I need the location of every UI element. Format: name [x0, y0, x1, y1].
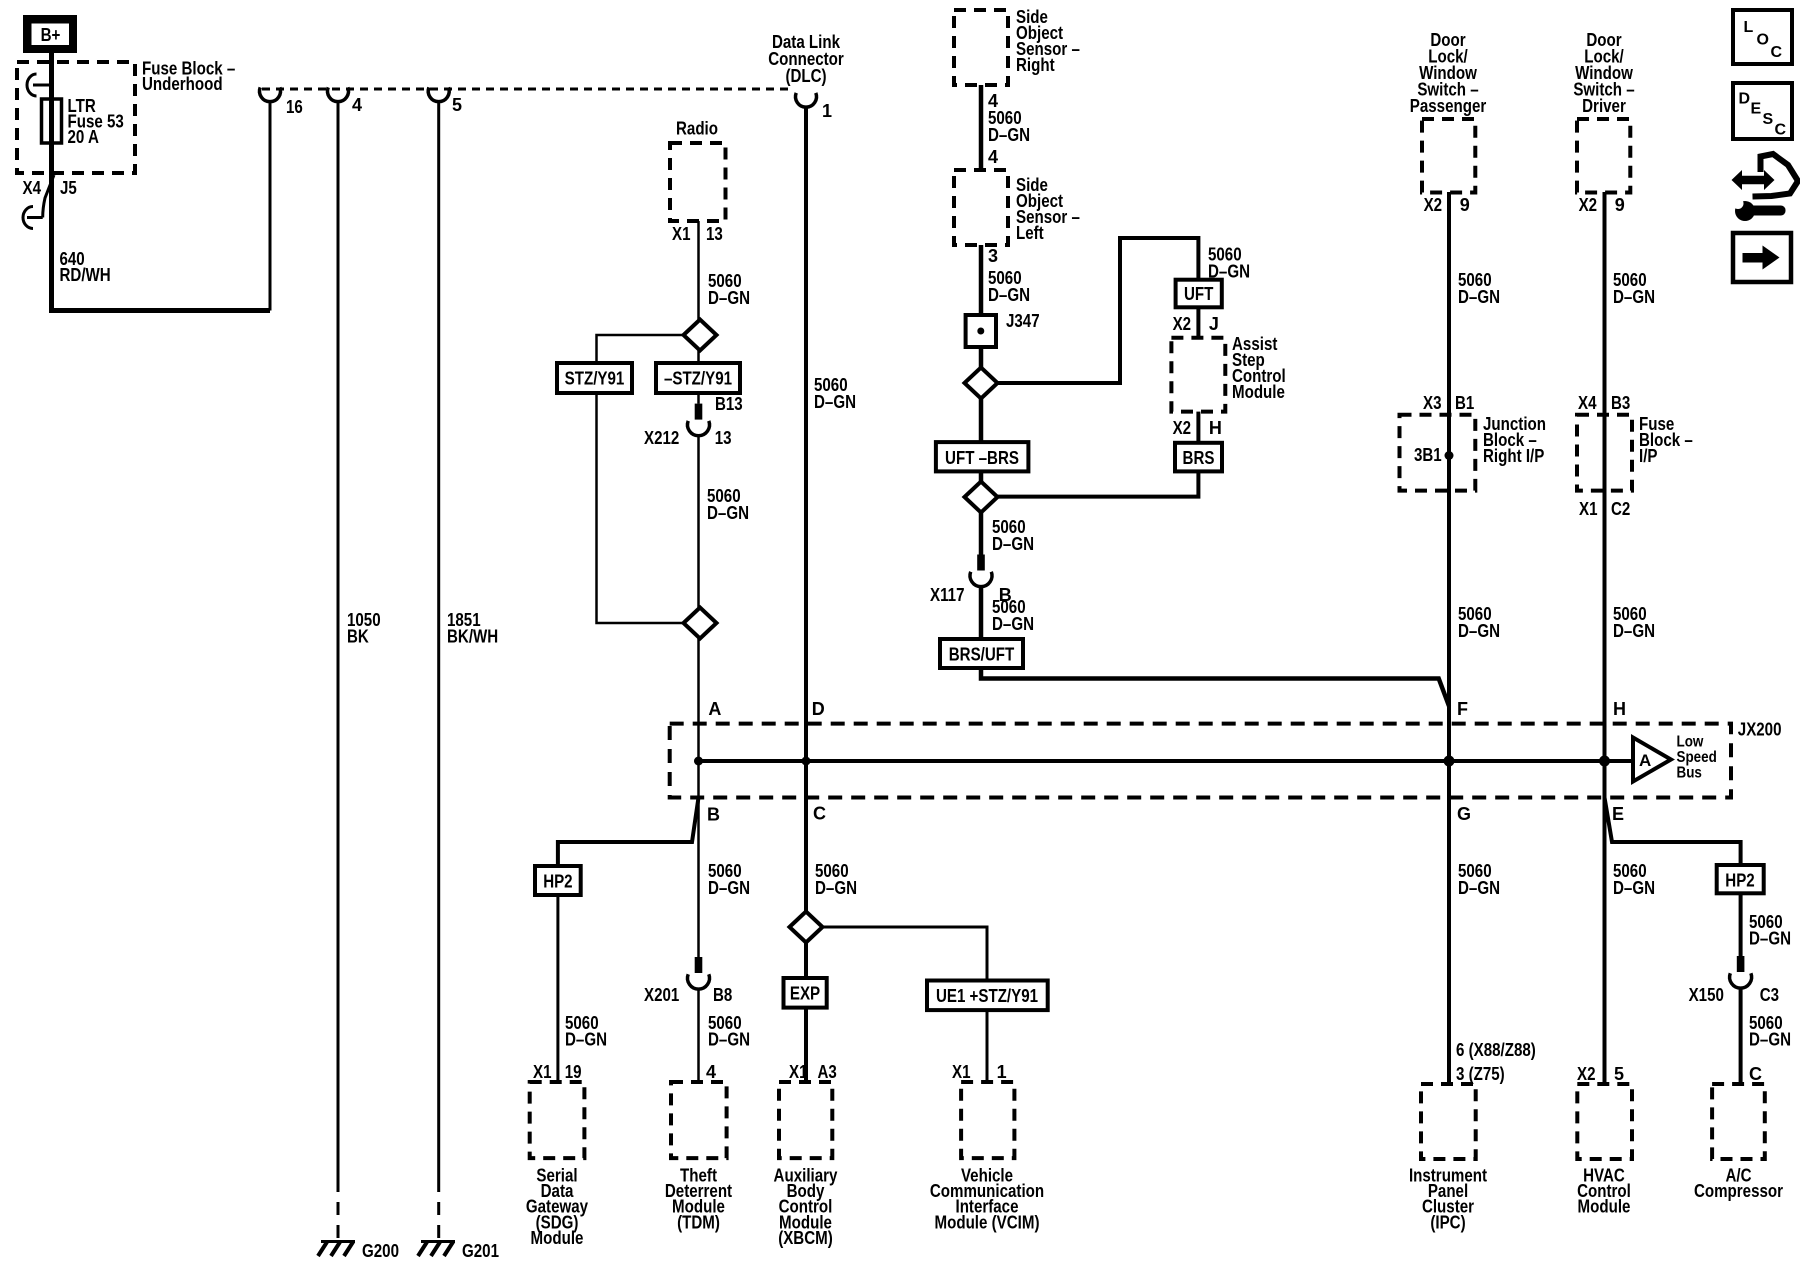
auxiliary body control module dashed box	[779, 1082, 832, 1158]
svg-text:D–GN: D–GN	[988, 125, 1030, 145]
svg-text:X1: X1	[672, 224, 691, 244]
svg-text:UFT –BRS: UFT –BRS	[945, 448, 1019, 468]
svg-text:Bus: Bus	[1677, 765, 1702, 782]
wire branch from splice to STZ/Y91	[597, 335, 685, 363]
svg-text:B13: B13	[715, 394, 743, 414]
svg-text:O: O	[1757, 32, 1769, 49]
svg-text:20 A: 20 A	[68, 127, 99, 147]
svg-text:X1: X1	[1579, 499, 1598, 519]
svg-text:4: 4	[988, 147, 998, 167]
svg-text:B+: B+	[41, 25, 61, 45]
connector cup pin 4	[328, 87, 349, 101]
label box UFT -BRS	[936, 442, 1029, 471]
svg-text:D–GN: D–GN	[707, 503, 749, 523]
svg-text:G200: G200	[362, 1241, 399, 1261]
bus direction triangle A	[1633, 738, 1671, 782]
fuse LTR Fuse 53 20A	[42, 99, 62, 143]
svg-text:D: D	[812, 699, 825, 719]
connector J347	[966, 315, 996, 347]
svg-text:X212: X212	[644, 428, 679, 448]
inline connector X201 pin B8	[695, 957, 703, 973]
svg-text:HP2: HP2	[543, 872, 572, 892]
svg-text:C2: C2	[1611, 499, 1630, 519]
vehicle communication interface module dashed box	[961, 1082, 1014, 1158]
theft deterrent module dashed box	[671, 1082, 727, 1158]
svg-text:Speed: Speed	[1677, 749, 1717, 766]
svg-text:D–GN: D–GN	[1458, 287, 1500, 307]
side object sensor left dashed box	[954, 170, 1008, 245]
icon LOC box	[1733, 10, 1792, 64]
svg-text:EXP: EXP	[790, 984, 820, 1004]
svg-text:X1: X1	[952, 1062, 971, 1082]
svg-text:X1: X1	[789, 1062, 808, 1082]
low speed bus wire	[699, 759, 1634, 763]
svg-text:X2: X2	[1579, 195, 1598, 215]
svg-text:(IPC): (IPC)	[1430, 1212, 1465, 1232]
svg-text:3 (Z75): 3 (Z75)	[1456, 1064, 1505, 1084]
svg-text:(TDM): (TDM)	[677, 1212, 720, 1232]
svg-text:L: L	[1744, 19, 1754, 36]
junction dot node F	[1444, 756, 1455, 767]
junction dot node D	[802, 757, 811, 766]
svg-text:JX200: JX200	[1738, 720, 1782, 740]
svg-text:1: 1	[997, 1062, 1007, 1082]
splice diamond S1	[684, 320, 717, 351]
wire 5060 D-GN radio down to X212	[697, 221, 700, 404]
svg-text:X1: X1	[533, 1062, 552, 1082]
svg-text:5: 5	[452, 95, 462, 115]
wire riser to connector 16	[269, 100, 272, 311]
svg-text:9: 9	[1460, 195, 1470, 215]
HVAC control module dashed box	[1577, 1084, 1632, 1159]
svg-text:D–GN: D–GN	[814, 392, 856, 412]
svg-text:G201: G201	[462, 1241, 499, 1261]
svg-text:X2: X2	[1173, 314, 1192, 334]
svg-text:6 (X88/Z88): 6 (X88/Z88)	[1456, 1040, 1536, 1060]
svg-text:Passenger: Passenger	[1410, 96, 1487, 116]
door lock window switch passenger dashed box	[1422, 119, 1475, 193]
svg-text:RD/WH: RD/WH	[60, 265, 111, 285]
wire HP2 to SDG module	[556, 895, 559, 1082]
svg-text:B3: B3	[1611, 393, 1630, 413]
side object sensor right dashed box	[954, 10, 1008, 85]
svg-text:D–GN: D–GN	[992, 614, 1034, 634]
svg-text:X117: X117	[930, 585, 965, 605]
svg-text:Right I/P: Right I/P	[1483, 446, 1544, 466]
wire 1050 BK	[337, 101, 340, 1179]
label box HP2 right	[1717, 865, 1764, 893]
svg-text:D–GN: D–GN	[1613, 878, 1655, 898]
svg-text:(XBCM): (XBCM)	[778, 1228, 833, 1248]
svg-text:Module: Module	[1232, 382, 1285, 402]
wire BRS/UFT to node F	[981, 668, 1449, 706]
wire pin 3 down through J347, splices, UFT-BRS to X117	[979, 245, 984, 555]
fuse block underhood terminal hook top	[27, 74, 51, 96]
wire node B down to X201	[697, 761, 700, 957]
svg-text:X3: X3	[1423, 393, 1442, 413]
svg-text:C: C	[1771, 44, 1783, 61]
label box UE1 +STZ/Y91	[927, 981, 1048, 1011]
svg-text:C: C	[1749, 1064, 1762, 1084]
svg-text:19: 19	[565, 1062, 582, 1082]
label box BRS/UFT	[940, 639, 1023, 668]
svg-text:E: E	[1612, 804, 1624, 824]
wire 5060 D-GN driver down to node H/E and HVAC	[1603, 192, 1607, 1084]
label box -STZ/Y91	[656, 363, 740, 393]
connector cup pin 16	[260, 87, 281, 101]
door lock window switch driver dashed box	[1577, 119, 1630, 193]
fuse block underhood dashed box	[17, 62, 135, 173]
battery feed B+ terminal	[23, 15, 77, 53]
icon double arrow with outline arrow	[1732, 154, 1799, 197]
svg-text:X2: X2	[1173, 418, 1192, 438]
splice diamond S3	[965, 368, 998, 399]
svg-text:Radio: Radio	[676, 119, 718, 139]
inline connector X150 pin C3	[1737, 956, 1745, 972]
splice diamond S4	[965, 482, 998, 513]
svg-text:D–GN: D–GN	[708, 1030, 750, 1050]
svg-text:D–GN: D–GN	[708, 878, 750, 898]
dashed data bus line at top	[262, 88, 794, 91]
wire STZ/Y91 down to splice S2	[597, 393, 684, 623]
svg-text:STZ/Y91: STZ/Y91	[565, 369, 625, 389]
label box HP2 left	[535, 866, 581, 895]
wire X117 to BRS/UFT	[979, 587, 984, 640]
svg-text:HP2: HP2	[1725, 871, 1754, 891]
svg-text:5: 5	[1614, 1064, 1624, 1084]
svg-text:H: H	[1209, 418, 1222, 438]
pin stub X2 H	[1196, 412, 1200, 443]
wire splice S3 to UFT	[998, 238, 1199, 383]
junction dot node A	[694, 757, 703, 766]
svg-text:E: E	[1751, 101, 1762, 118]
wire UE1 to VCIM	[986, 1010, 989, 1082]
svg-text:X150: X150	[1689, 985, 1724, 1005]
instrument panel cluster dashed box	[1421, 1084, 1476, 1159]
icon DESC box	[1733, 83, 1792, 139]
svg-text:A: A	[708, 699, 721, 719]
svg-text:Low: Low	[1677, 734, 1704, 751]
svg-text:Module: Module	[1578, 1197, 1631, 1217]
svg-text:BK/WH: BK/WH	[447, 627, 498, 647]
AC compressor dashed box	[1712, 1084, 1765, 1159]
svg-text:Underhood: Underhood	[142, 74, 223, 94]
label box UFT	[1176, 280, 1222, 308]
svg-text:D: D	[1739, 91, 1751, 108]
wire pin 4 to pin 4 between sensors	[979, 85, 984, 170]
wire node E to HP2 right	[1605, 798, 1741, 866]
svg-text:D–GN: D–GN	[1458, 621, 1500, 641]
svg-text:Module: Module	[531, 1228, 584, 1248]
junction block right I/P dashed box	[1400, 415, 1476, 491]
wire X150 to AC compressor	[1739, 988, 1743, 1084]
svg-text:D–GN: D–GN	[708, 288, 750, 308]
svg-text:A3: A3	[818, 1062, 837, 1082]
svg-text:UE1 +STZ/Y91: UE1 +STZ/Y91	[936, 986, 1038, 1006]
svg-text:G: G	[1457, 804, 1471, 824]
wire splice S5 to UE1 box	[823, 927, 988, 981]
svg-text:Compressor: Compressor	[1694, 1181, 1783, 1201]
splice diamond S5	[790, 912, 823, 943]
svg-text:D–GN: D–GN	[1613, 621, 1655, 641]
svg-text:UFT: UFT	[1184, 284, 1213, 304]
svg-text:X4: X4	[23, 178, 42, 198]
wire 640 RD/WH from B+ through fuse to connector 16	[49, 53, 270, 311]
inline connector X117 pin B	[977, 555, 985, 571]
svg-text:B1: B1	[1455, 393, 1474, 413]
svg-text:B8: B8	[713, 985, 732, 1005]
wire HP2 right to X150	[1739, 893, 1743, 956]
svg-text:J347: J347	[1006, 311, 1040, 331]
svg-text:X4: X4	[1578, 393, 1597, 413]
svg-text:D–GN: D–GN	[988, 285, 1030, 305]
svg-text:Driver: Driver	[1582, 96, 1626, 116]
connector cup pin 5	[428, 87, 449, 101]
svg-text:1: 1	[822, 101, 832, 121]
svg-text:D–GN: D–GN	[1749, 929, 1791, 949]
ground G201	[418, 1241, 499, 1261]
svg-text:D–GN: D–GN	[1749, 1030, 1791, 1050]
svg-text:S: S	[1763, 111, 1774, 128]
junction dot node H	[1599, 756, 1610, 767]
svg-text:D–GN: D–GN	[1613, 287, 1655, 307]
wire 5060 D-GN passenger down to node F/G and IPC	[1447, 192, 1451, 1084]
svg-text:J5: J5	[60, 178, 77, 198]
svg-text:C: C	[813, 804, 826, 824]
svg-text:C: C	[1775, 122, 1787, 139]
svg-text:A: A	[1639, 751, 1651, 770]
JX200 low speed bus dashed box	[670, 724, 1731, 798]
assist step control module dashed box	[1171, 338, 1225, 412]
svg-text:I/P: I/P	[1639, 446, 1658, 466]
wire node B to HP2 left	[558, 798, 699, 867]
svg-text:3B1: 3B1	[1414, 445, 1442, 465]
svg-text:Module (VCIM): Module (VCIM)	[935, 1212, 1040, 1232]
ground G200	[318, 1241, 399, 1261]
svg-text:J: J	[1209, 314, 1219, 334]
label box EXP	[784, 978, 827, 1008]
serial data gateway dashed box	[530, 1082, 585, 1158]
icon right arrow box	[1733, 233, 1791, 282]
svg-text:D–GN: D–GN	[1458, 878, 1500, 898]
svg-text:16: 16	[286, 97, 303, 117]
wire 5060 D-GN from DLC pin 1 down to node C and XBCM	[804, 107, 808, 1083]
connector X4/J5 slash and hook	[27, 175, 54, 218]
svg-text:Right: Right	[1016, 55, 1055, 75]
svg-text:(DLC): (DLC)	[785, 66, 826, 86]
wire 5060 D-GN X212 down to bus node A	[697, 436, 700, 762]
svg-text:X2: X2	[1577, 1064, 1596, 1084]
svg-text:BK: BK	[347, 627, 369, 647]
svg-text:Left: Left	[1016, 223, 1044, 243]
wire X201 to TDM	[697, 989, 700, 1082]
pin stub X2 J	[1196, 307, 1200, 338]
svg-text:X2: X2	[1424, 195, 1443, 215]
svg-text:X201: X201	[644, 985, 679, 1005]
svg-text:–STZ/Y91: –STZ/Y91	[664, 369, 732, 389]
label box BRS	[1175, 443, 1222, 472]
inline connector X212 pin 13	[695, 404, 703, 420]
svg-text:D–GN: D–GN	[992, 534, 1034, 554]
svg-text:D–GN: D–GN	[815, 878, 857, 898]
wire BRS to splice S4	[998, 471, 1199, 496]
svg-text:D–GN: D–GN	[565, 1030, 607, 1050]
svg-text:13: 13	[706, 224, 723, 244]
connector cup DLC pin 1	[796, 93, 817, 107]
svg-text:H: H	[1613, 699, 1626, 719]
fuse block I/P dashed box	[1577, 415, 1632, 491]
splice diamond S2	[684, 608, 717, 639]
label box STZ/Y91	[557, 363, 632, 393]
svg-text:BRS: BRS	[1183, 448, 1215, 468]
svg-text:F: F	[1457, 699, 1468, 719]
svg-text:BRS/UFT: BRS/UFT	[949, 645, 1015, 665]
svg-text:3: 3	[988, 246, 998, 266]
icon wrench	[1733, 198, 1786, 221]
svg-text:9: 9	[1615, 195, 1625, 215]
svg-text:13: 13	[715, 428, 732, 448]
svg-text:B: B	[707, 805, 720, 825]
svg-text:4: 4	[352, 95, 362, 115]
svg-text:4: 4	[706, 1062, 716, 1082]
svg-text:C3: C3	[1760, 985, 1779, 1005]
wire 1851 BK/WH	[437, 101, 440, 1179]
